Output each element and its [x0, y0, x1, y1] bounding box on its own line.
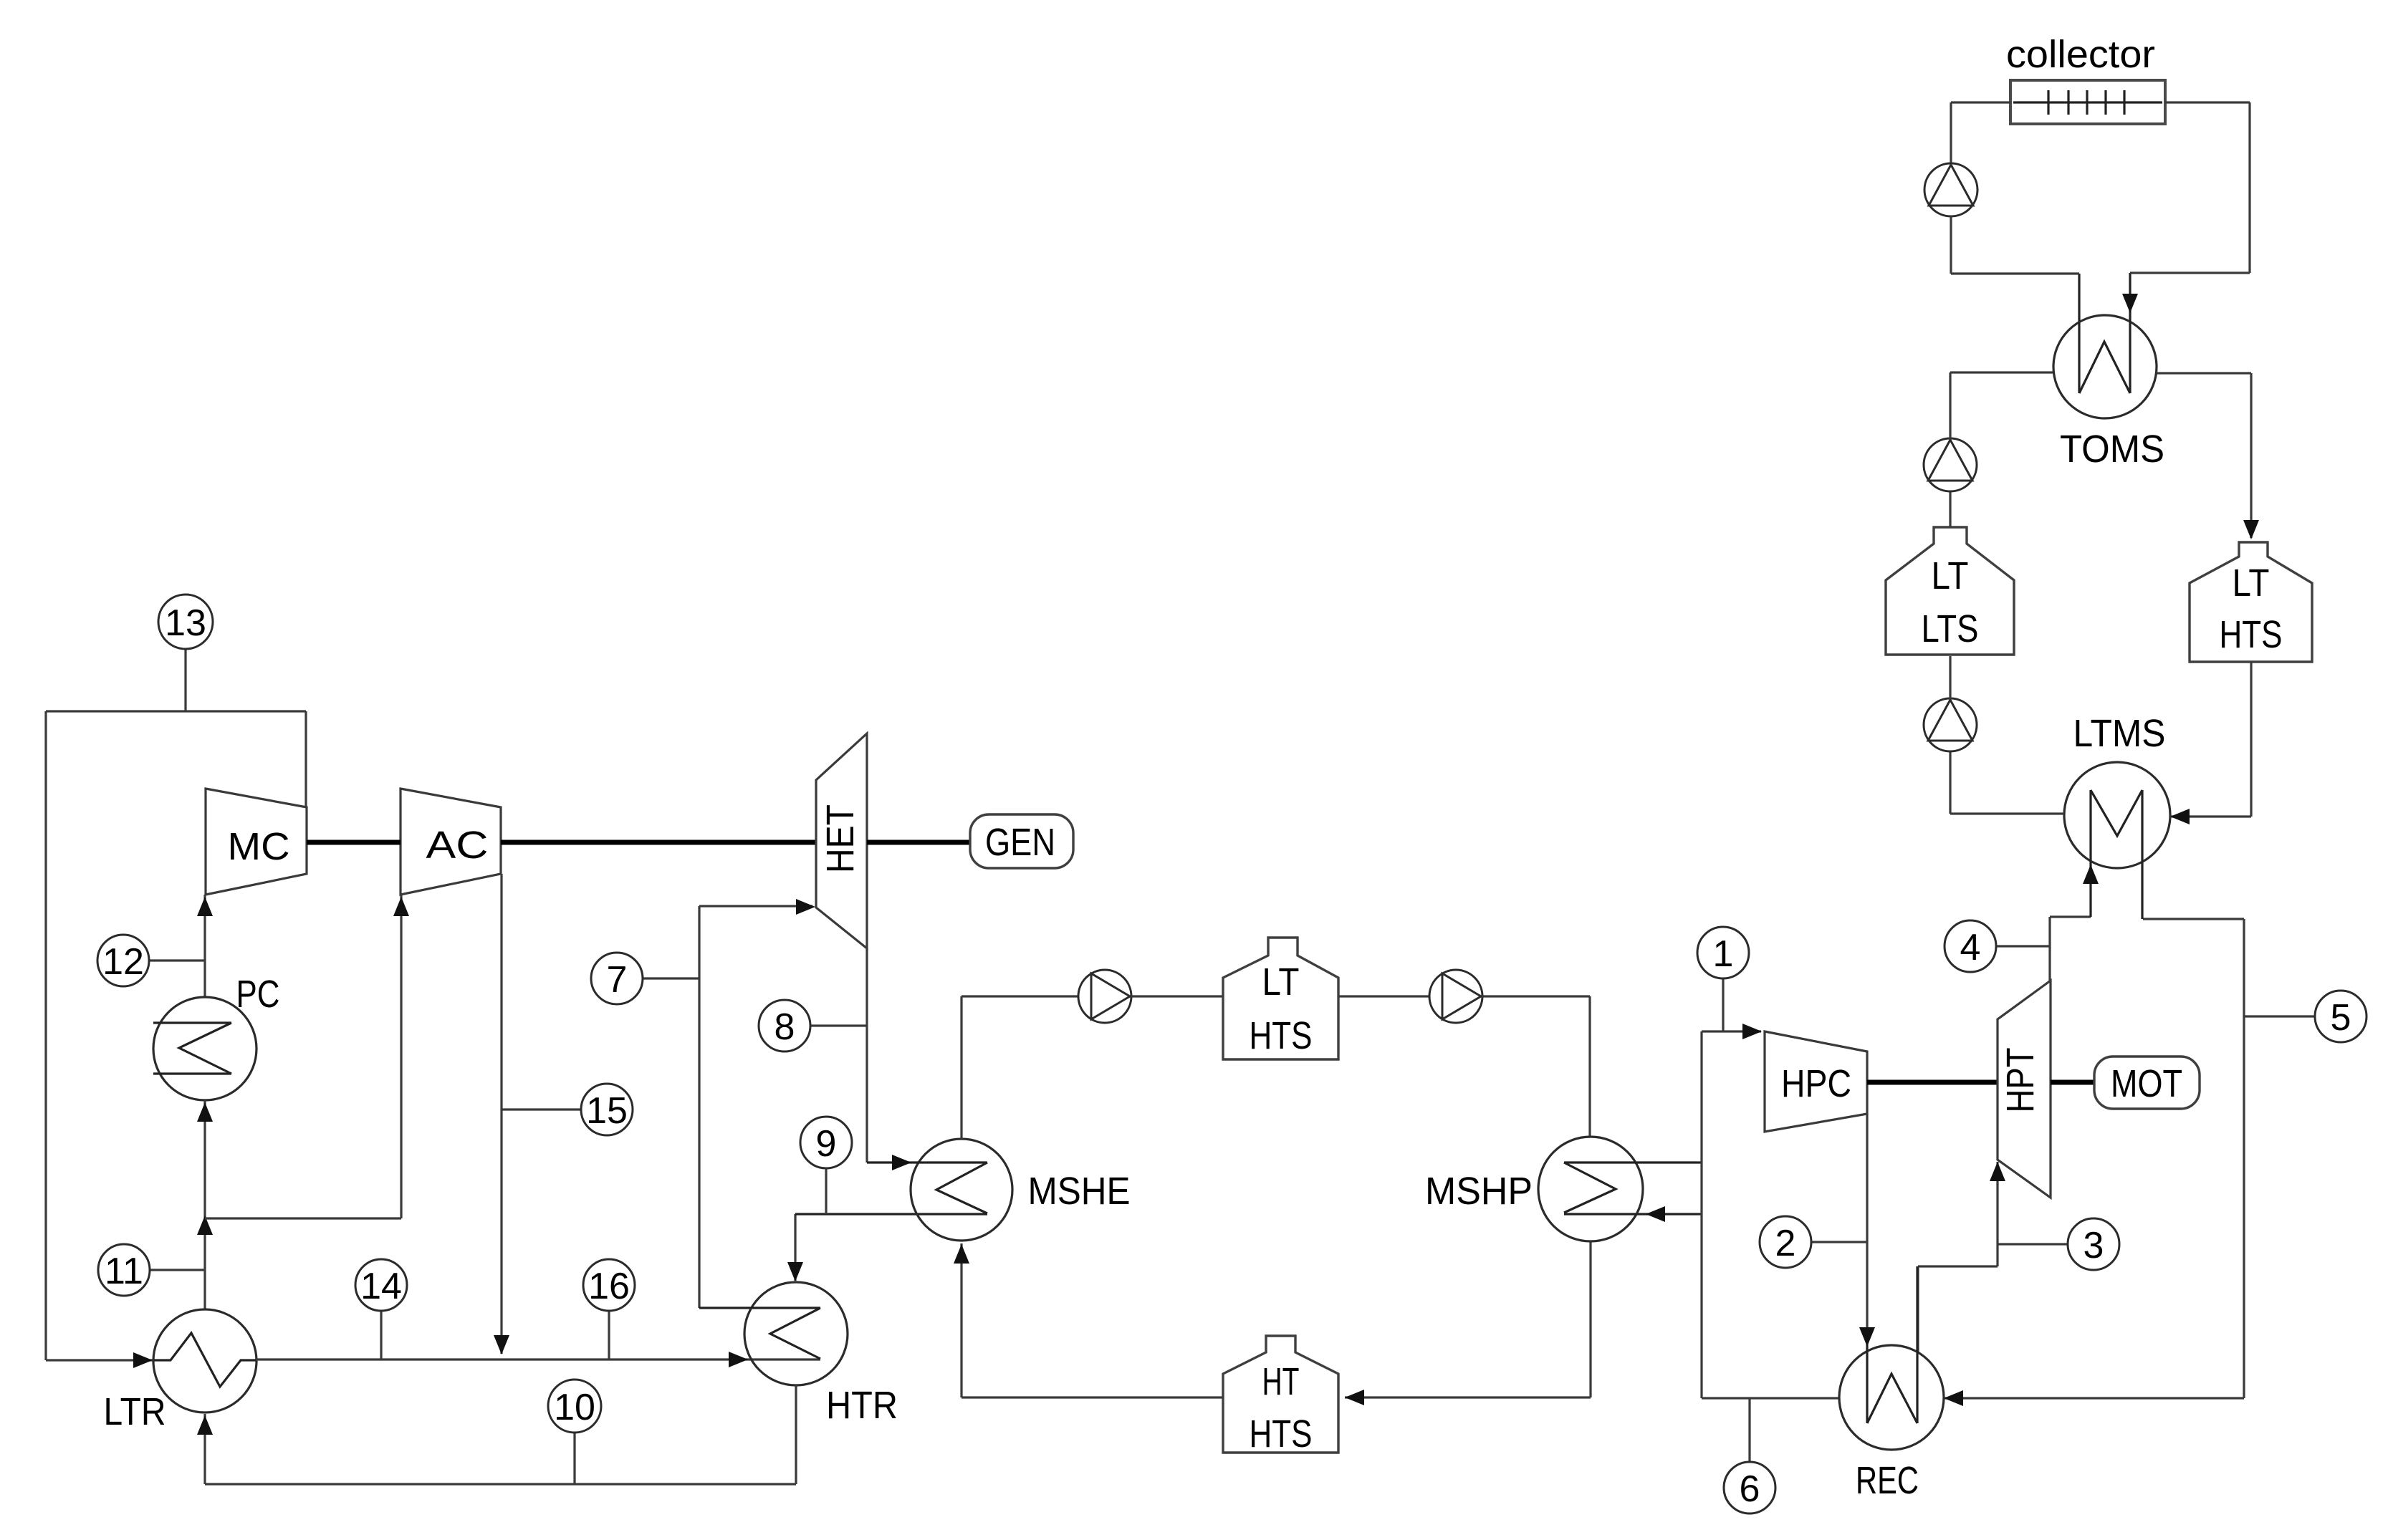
svg-text:LTR: LTR	[104, 1390, 166, 1433]
svg-text:5: 5	[2331, 997, 2351, 1039]
svg-text:HPC: HPC	[1781, 1062, 1851, 1105]
svg-text:14: 14	[360, 1266, 402, 1307]
svg-text:16: 16	[588, 1266, 630, 1307]
svg-text:LT: LT	[1932, 554, 1969, 597]
svg-text:HTS: HTS	[2220, 613, 2283, 656]
svg-text:HTS: HTS	[1250, 1413, 1313, 1455]
svg-text:LT: LT	[2233, 562, 2270, 605]
svg-text:GEN: GEN	[985, 821, 1055, 864]
svg-text:LTS: LTS	[1922, 607, 1979, 650]
svg-text:1: 1	[1713, 933, 1734, 975]
svg-text:REC: REC	[1856, 1459, 1919, 1502]
svg-text:3: 3	[2083, 1225, 2104, 1266]
svg-text:15: 15	[586, 1090, 628, 1132]
svg-text:6: 6	[1740, 1468, 1760, 1510]
svg-text:HPT: HPT	[1999, 1048, 2042, 1113]
svg-text:4: 4	[1960, 927, 1981, 968]
svg-text:HTR: HTR	[826, 1384, 898, 1427]
svg-text:11: 11	[105, 1251, 143, 1292]
svg-text:7: 7	[607, 959, 628, 1001]
svg-text:MSHE: MSHE	[1028, 1170, 1131, 1213]
svg-text:HET: HET	[819, 804, 862, 873]
svg-text:MOT: MOT	[2111, 1062, 2182, 1105]
svg-text:HTS: HTS	[1250, 1014, 1313, 1057]
svg-text:12: 12	[102, 941, 144, 983]
svg-text:MC: MC	[228, 825, 290, 868]
svg-text:MSHP: MSHP	[1425, 1170, 1533, 1213]
svg-text:PC: PC	[236, 973, 280, 1016]
svg-text:collector: collector	[2006, 33, 2155, 76]
svg-text:13: 13	[165, 602, 206, 644]
svg-text:HT: HT	[1262, 1360, 1300, 1403]
svg-text:10: 10	[554, 1387, 595, 1428]
svg-text:8: 8	[775, 1006, 795, 1048]
svg-text:TOMS: TOMS	[2060, 428, 2164, 471]
svg-text:LT: LT	[1262, 961, 1300, 1004]
svg-text:LTMS: LTMS	[2073, 712, 2166, 755]
svg-text:2: 2	[1775, 1223, 1796, 1264]
svg-text:9: 9	[816, 1123, 837, 1165]
svg-text:AC: AC	[426, 824, 489, 867]
